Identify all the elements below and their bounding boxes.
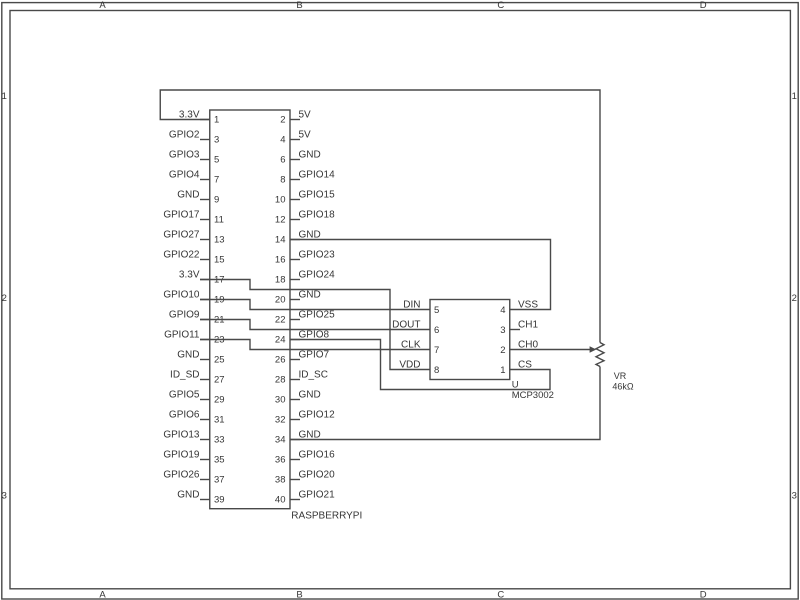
svg-text:GPIO27: GPIO27: [163, 230, 200, 241]
svg-text:GPIO13: GPIO13: [163, 430, 200, 441]
J1 pin 21 (GPIO9): [169, 310, 225, 326]
svg-text:11: 11: [214, 215, 224, 226]
svg-text:22: 22: [275, 315, 286, 326]
svg-text:DOUT: DOUT: [392, 320, 420, 331]
J1 pin 31 (GPIO6): [169, 410, 225, 426]
svg-text:ID_SD: ID_SD: [170, 370, 199, 381]
svg-text:GPIO2: GPIO2: [169, 130, 200, 141]
wire SCLK: J1 pin23 GPIO11 across to U pin7 CLK: [200, 340, 430, 350]
svg-text:29: 29: [214, 395, 225, 406]
svg-text:GPIO21: GPIO21: [299, 490, 336, 501]
svg-text:GND: GND: [299, 390, 321, 401]
svg-text:GPIO11: GPIO11: [164, 330, 200, 341]
svg-text:32: 32: [275, 415, 286, 426]
svg-text:3: 3: [214, 135, 219, 146]
J1 pin 13 (GPIO27): [163, 230, 224, 246]
svg-text:A: A: [99, 0, 106, 11]
svg-text:1: 1: [500, 365, 505, 376]
svg-text:2: 2: [792, 293, 797, 304]
J1 pin 30 (GND): [275, 390, 321, 406]
svg-text:A: A: [99, 590, 106, 600]
svg-text:24: 24: [275, 335, 286, 346]
svg-text:26: 26: [275, 355, 286, 366]
svg-text:CH1: CH1: [518, 320, 538, 331]
J1 pin 34 (GND): [275, 430, 321, 446]
J1 pin 17 (3.3V): [179, 270, 225, 286]
wire CH0: U pin2 to VR wiper arrow: [510, 349, 591, 351]
svg-text:ID_SC: ID_SC: [299, 370, 328, 381]
svg-text:3: 3: [500, 325, 505, 336]
svg-text:20: 20: [275, 295, 286, 306]
svg-text:15: 15: [214, 255, 225, 266]
svg-text:GPIO16: GPIO16: [299, 450, 336, 461]
J1 pin 39 (GND): [177, 490, 224, 506]
svg-text:GPIO14: GPIO14: [299, 170, 336, 181]
svg-text:VDD: VDD: [399, 360, 420, 371]
J1 pin 29 (GPIO5): [169, 390, 225, 406]
svg-text:5: 5: [434, 305, 439, 316]
svg-text:B: B: [296, 0, 302, 11]
J1 pin 25 (GND): [177, 350, 224, 366]
J1 pin 19 (GPIO10): [163, 290, 224, 306]
J1 pin 11 (GPIO17): [163, 210, 224, 226]
svg-text:33: 33: [214, 435, 225, 446]
svg-text:1: 1: [792, 91, 797, 102]
svg-text:MCP3002: MCP3002: [512, 390, 554, 401]
J1 pin 12 (GPIO18): [275, 210, 335, 226]
svg-text:3: 3: [792, 491, 797, 502]
J1 pin 23 (GPIO11): [164, 330, 224, 346]
svg-text:VSS: VSS: [518, 300, 538, 311]
wire MOSI: J1 pin19 GPIO10 across to U pin5 DIN: [200, 300, 430, 310]
svg-text:GPIO24: GPIO24: [299, 270, 336, 281]
svg-text:2: 2: [280, 115, 285, 126]
svg-text:4: 4: [280, 135, 285, 146]
J1 pin 5 (GPIO3): [169, 150, 219, 166]
svg-text:5: 5: [214, 155, 219, 166]
svg-text:7: 7: [434, 345, 439, 356]
svg-text:GPIO9: GPIO9: [169, 310, 200, 321]
svg-text:30: 30: [275, 395, 286, 406]
svg-text:B: B: [296, 590, 302, 600]
svg-text:28: 28: [275, 375, 286, 386]
svg-text:13: 13: [214, 235, 225, 246]
svg-text:GPIO15: GPIO15: [299, 190, 336, 201]
wiper arrowhead: [590, 346, 597, 353]
svg-text:5V: 5V: [299, 130, 312, 141]
J1 pin 15 (GPIO22): [163, 250, 224, 266]
svg-text:35: 35: [214, 455, 225, 466]
J1 pin 20 (GND): [275, 290, 321, 306]
J1 pin 37 (GPIO26): [163, 470, 224, 486]
J1 pin 32 (GPIO12): [275, 410, 335, 426]
svg-text:GND: GND: [177, 190, 199, 201]
svg-text:GPIO20: GPIO20: [299, 470, 336, 481]
J1 pin 7 (GPIO4): [169, 170, 219, 186]
J1 pin 28 (ID_SC): [275, 370, 328, 386]
J1 pin 4 (5V): [280, 130, 311, 146]
svg-text:VR: VR: [614, 371, 627, 381]
J1 pin 24 (GPIO8): [275, 330, 330, 346]
J1 pin 9 (GND): [177, 190, 219, 206]
svg-text:18: 18: [275, 275, 286, 286]
svg-text:GND: GND: [177, 490, 199, 501]
svg-text:DIN: DIN: [403, 300, 420, 311]
J1 pin 10 (GPIO15): [275, 190, 335, 206]
svg-text:D: D: [700, 0, 707, 11]
J1 pin 2 (5V): [280, 110, 311, 126]
wire 3.3V rail: J1 pin1 up and across top to VR top terminal: [160, 90, 600, 343]
J1 pin 18 (GPIO24): [275, 270, 335, 286]
J1 pin 6 (GND): [280, 150, 321, 166]
svg-text:D: D: [700, 590, 707, 600]
svg-text:2: 2: [500, 345, 505, 356]
svg-text:GPIO3: GPIO3: [169, 150, 200, 161]
wire 3.3V: J1 pin17 across to U pin8 VDD: [200, 280, 430, 370]
svg-text:25: 25: [214, 355, 225, 366]
svg-text:2: 2: [2, 293, 7, 304]
resistor VR zigzag body: [596, 343, 604, 367]
svg-text:GPIO18: GPIO18: [299, 210, 336, 221]
J1 pin 27 (ID_SD): [170, 370, 225, 386]
svg-text:GPIO22: GPIO22: [163, 250, 200, 261]
svg-text:16: 16: [275, 255, 286, 266]
svg-text:GPIO7: GPIO7: [299, 350, 330, 361]
svg-text:8: 8: [434, 365, 439, 376]
svg-text:GPIO23: GPIO23: [299, 250, 336, 261]
wire CE0: J1 pin24 GPIO8 right, down, around to U pin1 CS: [290, 340, 550, 390]
svg-text:GND: GND: [177, 350, 199, 361]
J1 pin 38 (GPIO20): [275, 470, 335, 486]
J1 pin 16 (GPIO23): [275, 250, 335, 266]
svg-text:GPIO5: GPIO5: [169, 390, 200, 401]
svg-text:12: 12: [275, 215, 286, 226]
svg-text:39: 39: [214, 495, 225, 506]
svg-text:1: 1: [2, 91, 7, 102]
svg-text:GPIO26: GPIO26: [163, 470, 200, 481]
svg-text:3.3V: 3.3V: [179, 270, 200, 281]
svg-text:5V: 5V: [299, 110, 312, 121]
J1 pin 14 (GND): [275, 230, 321, 246]
svg-text:GPIO6: GPIO6: [169, 410, 200, 421]
op-amp/ADC U MCP3002 body: [430, 300, 510, 380]
svg-text:CH0: CH0: [518, 340, 538, 351]
svg-text:38: 38: [275, 475, 286, 486]
svg-text:31: 31: [214, 415, 225, 426]
svg-text:34: 34: [275, 435, 286, 446]
J1 pin 35 (GPIO19): [163, 450, 224, 466]
svg-text:GPIO19: GPIO19: [163, 450, 200, 461]
svg-text:GPIO4: GPIO4: [169, 170, 200, 181]
J1 pin 1 (3.3V): [179, 110, 219, 126]
svg-text:6: 6: [280, 155, 285, 166]
wire GND: VR bottom terminal down and left to J1 pin34: [290, 367, 600, 440]
svg-text:C: C: [497, 590, 504, 600]
svg-text:27: 27: [214, 375, 225, 386]
svg-text:37: 37: [214, 475, 225, 486]
svg-text:GPIO17: GPIO17: [163, 210, 200, 221]
svg-text:GPIO12: GPIO12: [299, 410, 336, 421]
svg-text:1: 1: [214, 115, 219, 126]
svg-text:40: 40: [275, 495, 286, 506]
svg-text:46kΩ: 46kΩ: [612, 382, 634, 392]
J1 pin 33 (GPIO13): [163, 430, 224, 446]
J1 pin 26 (GPIO7): [275, 350, 330, 366]
J1 pin 3 (GPIO2): [169, 130, 219, 146]
svg-text:CS: CS: [518, 360, 532, 371]
svg-text:7: 7: [214, 175, 219, 186]
J1 pin 40 (GPIO21): [275, 490, 335, 506]
svg-text:8: 8: [280, 175, 285, 186]
connector J1 RASPBERRYPI body: [210, 110, 290, 509]
wire GND: J1 pin14 right, down to U pin4 VSS: [290, 240, 551, 310]
svg-text:GND: GND: [299, 290, 321, 301]
svg-text:GPIO25: GPIO25: [299, 310, 336, 321]
svg-text:6: 6: [434, 325, 439, 336]
svg-text:CLK: CLK: [401, 340, 421, 351]
svg-text:GPIO10: GPIO10: [163, 290, 200, 301]
svg-text:RASPBERRYPI: RASPBERRYPI: [291, 511, 362, 522]
stub U pin3 CH1: [510, 329, 520, 331]
wire MISO: J1 pin21 GPIO9 across to U pin6 DOUT: [200, 320, 430, 330]
svg-text:GND: GND: [299, 150, 321, 161]
svg-text:C: C: [497, 0, 504, 11]
svg-text:36: 36: [275, 455, 286, 466]
J1 pin 36 (GPIO16): [275, 450, 335, 466]
svg-text:3: 3: [2, 491, 7, 502]
svg-text:4: 4: [500, 305, 505, 316]
svg-text:10: 10: [275, 195, 286, 206]
svg-text:14: 14: [275, 235, 286, 246]
svg-text:9: 9: [214, 195, 219, 206]
J1 pin 22 (GPIO25): [275, 310, 335, 326]
J1 pin 8 (GPIO14): [280, 170, 335, 186]
